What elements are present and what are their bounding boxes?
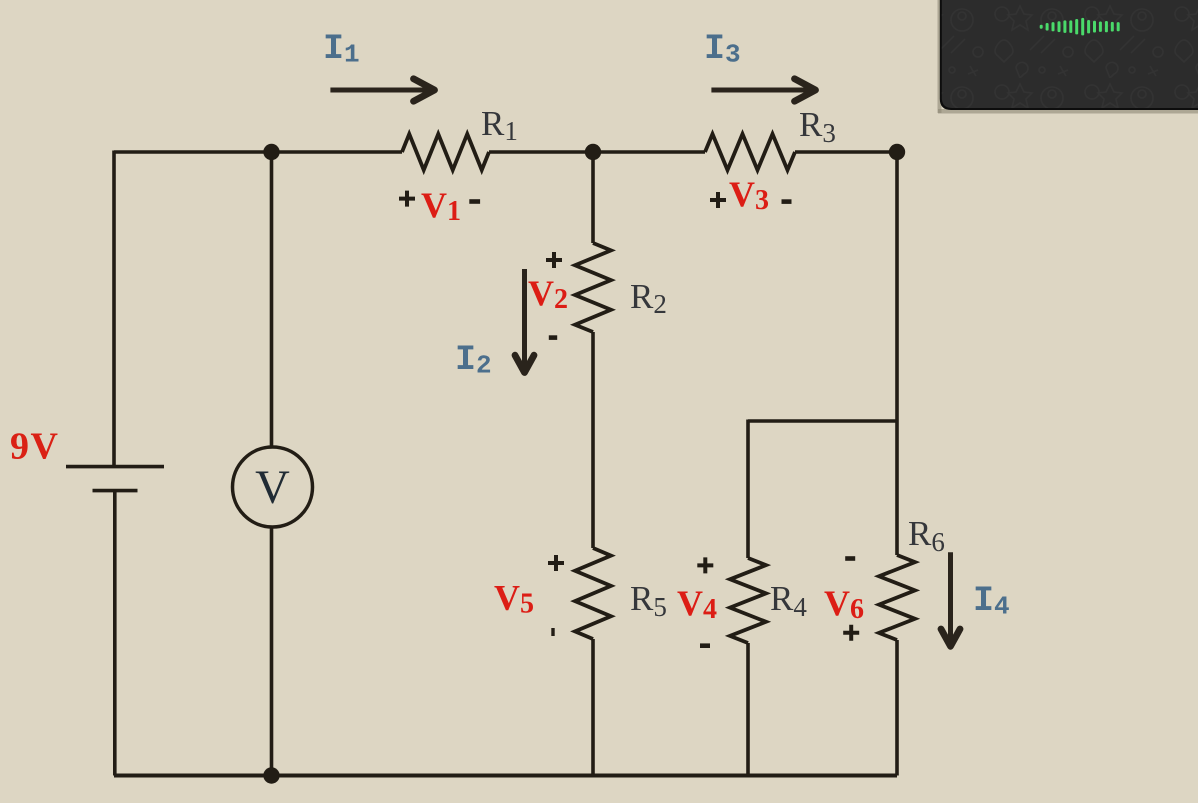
polarity plus of V2	[546, 252, 562, 268]
voice message waveform	[1040, 18, 1120, 36]
svg-text:9V: 9V	[10, 426, 59, 468]
resistor R5	[575, 548, 611, 639]
polarity plus of V1	[399, 191, 415, 207]
polarity plus of V6	[843, 625, 859, 641]
overlay: dark media panel (top-right)	[938, 0, 1198, 114]
wire: R4 branch lower	[746, 643, 750, 776]
wire: top rail, node A to R1	[114, 150, 402, 154]
wire: bottom rail	[114, 774, 897, 778]
wire: voltmeter branch upper	[270, 152, 274, 448]
resistor R6	[879, 555, 915, 640]
node B (top, between R1 and R3)	[585, 144, 601, 160]
polarity plus of V3	[710, 192, 726, 208]
node D (bottom, voltmeter tap)	[263, 767, 279, 783]
node C (top right)	[889, 144, 905, 160]
resistor R4	[730, 558, 766, 643]
wire: left branch lower (battery to bottom rail)	[113, 491, 117, 776]
polarity minus of V4	[700, 643, 710, 648]
current arrow I2	[515, 269, 534, 373]
current arrow I4	[941, 552, 960, 646]
current arrow I1	[330, 79, 434, 101]
wire: R4 branch top connector	[748, 419, 897, 423]
wire: left branch upper (to battery)	[112, 151, 116, 466]
polarity tick of V5	[551, 628, 554, 636]
wire: right branch, node C to R6	[895, 152, 899, 555]
wire: right branch, R6 to bottom rail	[895, 640, 899, 776]
battery B1 negative plate	[93, 489, 138, 493]
wire: middle branch, R2 to R5	[591, 332, 595, 548]
wire: voltmeter branch lower	[270, 527, 274, 776]
voltmeter U1 circle	[233, 447, 313, 527]
polarity minus of V2	[549, 335, 557, 340]
polarity minus of V3	[782, 199, 792, 204]
wire: middle branch, R5 to bottom rail	[591, 639, 595, 776]
svg-text:V: V	[255, 461, 290, 514]
current arrow I3	[711, 79, 815, 101]
battery B1 positive plate	[66, 465, 164, 469]
wire: top rail, R1 to R3	[489, 150, 705, 154]
node A (top, voltmeter tap)	[263, 144, 279, 160]
polarity minus of V1	[469, 199, 480, 204]
polarity plus of V5	[548, 555, 564, 571]
resistor R2	[575, 243, 611, 332]
polarity plus of V4	[697, 557, 713, 573]
wire: middle branch, node B to R2	[591, 152, 595, 243]
resistor R1	[402, 134, 489, 170]
resistor R3	[705, 134, 795, 170]
wire: R4 branch upper	[746, 420, 750, 559]
polarity minus of V6	[845, 556, 855, 561]
wire: top rail, R3 to node C	[795, 150, 897, 154]
